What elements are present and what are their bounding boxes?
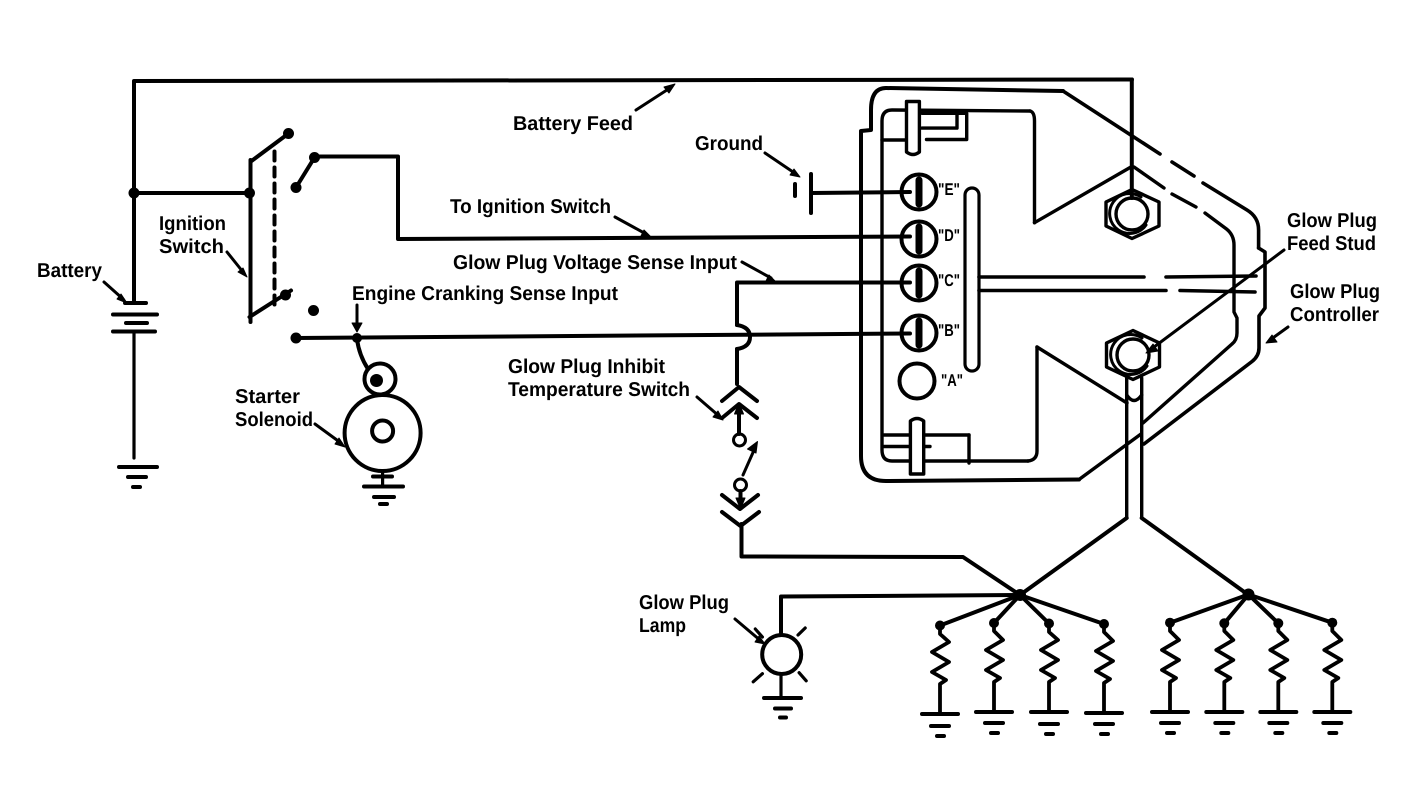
leader arrow (Temperature Switch) (697, 397, 723, 420)
glow plug feed stud (top nut) (1106, 190, 1159, 239)
svg-text:"D": "D" (938, 226, 960, 245)
ignition switch (244, 128, 320, 322)
ground (lamp) (764, 674, 801, 718)
pin B (902, 316, 937, 351)
svg-text:Solenoid: Solenoid (235, 409, 313, 431)
label Ground (695, 133, 763, 155)
node 1 (left glow plug junction) (1014, 589, 1026, 601)
wire node to glow plug 7 (1249, 595, 1279, 624)
label To Ignition Switch (450, 196, 611, 218)
ground (glow plug 6) (1206, 712, 1242, 733)
connector key slot bar (965, 188, 979, 371)
glow plug 6 (resistor) (1216, 618, 1233, 710)
wire temperature switch to node 1 (742, 524, 1021, 595)
label Battery (37, 260, 103, 282)
leader arrow (Voltage Sense) (742, 262, 776, 282)
glow plug 7 (resistor) (1270, 618, 1287, 710)
leader arrow (Starter Solenoid) (315, 424, 345, 447)
pin E label (938, 180, 960, 199)
wire to ignition switch (to pin D) (315, 157, 911, 240)
leader arrow (Feed Stud) (1146, 250, 1284, 353)
svg-text:Glow Plug Inhibit: Glow Plug Inhibit (508, 356, 665, 378)
key slot lines (to right tip, dashed hidden) (979, 276, 1256, 292)
glow plug 8 (resistor) (1324, 618, 1341, 710)
label Starter Solenoid (235, 386, 313, 431)
controller 3d face triangles (1035, 167, 1142, 480)
ground symbol (controller ground) (795, 174, 811, 213)
svg-text:Lamp: Lamp (639, 615, 686, 637)
svg-text:Ground: Ground (695, 133, 763, 155)
svg-text:"A": "A" (941, 371, 963, 390)
svg-text:Battery: Battery (37, 260, 103, 282)
svg-text:Temperature Switch: Temperature Switch (508, 379, 690, 401)
glow plug 4 (resistor) (1096, 619, 1113, 711)
svg-text:To Ignition Switch: To Ignition Switch (450, 196, 611, 218)
ground (glow plug 2) (976, 712, 1012, 733)
label Ignition Switch (159, 213, 226, 258)
controller body top diagonal (partially hidden) (1063, 91, 1265, 444)
node 2 (right glow plug junction) (1243, 589, 1255, 601)
wire node to glow plug 5 (1170, 595, 1249, 623)
svg-text:"C": "C" (938, 271, 960, 290)
connector mounting tab (top) (882, 102, 967, 155)
ground (glow plug 1) (922, 714, 958, 736)
pin B label (938, 321, 960, 340)
wire battery to ignition switch (134, 191, 250, 195)
wire battery feed (top) (134, 80, 1132, 194)
glow plug 1 (resistor) (932, 621, 949, 713)
label Battery Feed (513, 113, 633, 135)
pin C (902, 266, 937, 301)
leader arrow (Ignition Switch) (227, 252, 247, 277)
wire stem to node 1 (1020, 518, 1127, 595)
battery (113, 193, 157, 458)
glow plug inhibit temperature switch (722, 387, 759, 526)
wire node to glow plug 2 (994, 595, 1020, 623)
svg-text:Controller: Controller (1290, 304, 1379, 326)
starter solenoid (345, 333, 421, 471)
pin C label (938, 271, 960, 290)
controller body inner edge (1134, 167, 1237, 423)
svg-text:Battery Feed: Battery Feed (513, 113, 633, 135)
label Glow Plug Feed Stud (1287, 210, 1377, 255)
leader arrow (Battery) (104, 282, 127, 303)
leader arrow (Engine Cranking) (352, 305, 362, 332)
ground (starter solenoid) (364, 471, 403, 504)
label Glow Plug Lamp (639, 592, 729, 637)
label Glow Plug Inhibit Temperature Switch (508, 356, 690, 401)
wire node to glow plug 4 (1020, 595, 1104, 624)
glow plug 2 (resistor) (986, 618, 1003, 710)
ground (glow plug 8) (1314, 712, 1350, 733)
wire engine cranking sense (to pin B) (291, 333, 911, 344)
pin E (902, 175, 937, 210)
pin A label (941, 371, 963, 390)
wire node to glow plug 1 (940, 595, 1020, 626)
glow plug feed stud (bottom nut) (1107, 331, 1160, 380)
label Glow Plug Controller (1290, 281, 1380, 326)
svg-text:Starter: Starter (235, 386, 300, 408)
label Glow Plug Voltage Sense Input (453, 252, 737, 274)
ground (glow plug 4) (1086, 713, 1122, 734)
pin D (902, 222, 937, 257)
wire node to glow plug 8 (1249, 595, 1333, 623)
glow plug controller connector outer outline (861, 88, 1079, 481)
svg-text:Glow Plug Voltage Sense Input: Glow Plug Voltage Sense Input (453, 252, 737, 274)
node battery junction (129, 188, 140, 199)
wire ground to pin E (811, 192, 910, 193)
leader arrow (Glow Plug Lamp) (735, 619, 765, 644)
svg-text:"B": "B" (938, 321, 960, 340)
glow plug 5 (resistor) (1162, 618, 1179, 710)
glow plug lamp (753, 628, 806, 682)
glow plug controller connector inner outline (882, 110, 1037, 461)
wire node to glow plug 3 (1020, 595, 1049, 624)
ground (glow plug 5) (1152, 712, 1188, 733)
ground (glow plug 7) (1260, 712, 1296, 733)
wire battery feed drop to top stud (1130, 80, 1134, 199)
svg-text:Ignition: Ignition (159, 213, 226, 235)
connector mounting tab (bottom) (884, 419, 969, 475)
wire node to glow plug 6 (1224, 595, 1248, 624)
ground (glow plug 3) (1031, 712, 1067, 734)
glow plug 3 (resistor) (1041, 619, 1058, 711)
label Engine Cranking Sense Input (352, 283, 618, 305)
wire lamp to node 1 (781, 595, 1020, 635)
pin D label (938, 226, 960, 245)
pin A (900, 364, 935, 399)
svg-text:Engine Cranking Sense Input: Engine Cranking Sense Input (352, 283, 618, 305)
leader arrow (Ground) (765, 153, 800, 177)
svg-text:Glow Plug: Glow Plug (1287, 210, 1377, 232)
svg-text:Glow Plug: Glow Plug (639, 592, 729, 614)
svg-text:"E": "E" (938, 180, 960, 199)
leader arrow (Battery Feed) (636, 84, 675, 110)
wire stem to node 2 (1142, 518, 1249, 595)
ground (battery) (119, 467, 157, 487)
feed stud stem (1127, 378, 1142, 518)
svg-text:Feed Stud: Feed Stud (1287, 233, 1376, 255)
wire glow plug voltage sense (pin C to temperature switch) (737, 283, 910, 385)
svg-text:Glow Plug: Glow Plug (1290, 281, 1380, 303)
leader arrow (To Ignition Switch) (615, 217, 651, 237)
leader arrow (Controller) (1266, 327, 1288, 343)
svg-text:Switch: Switch (159, 236, 224, 258)
